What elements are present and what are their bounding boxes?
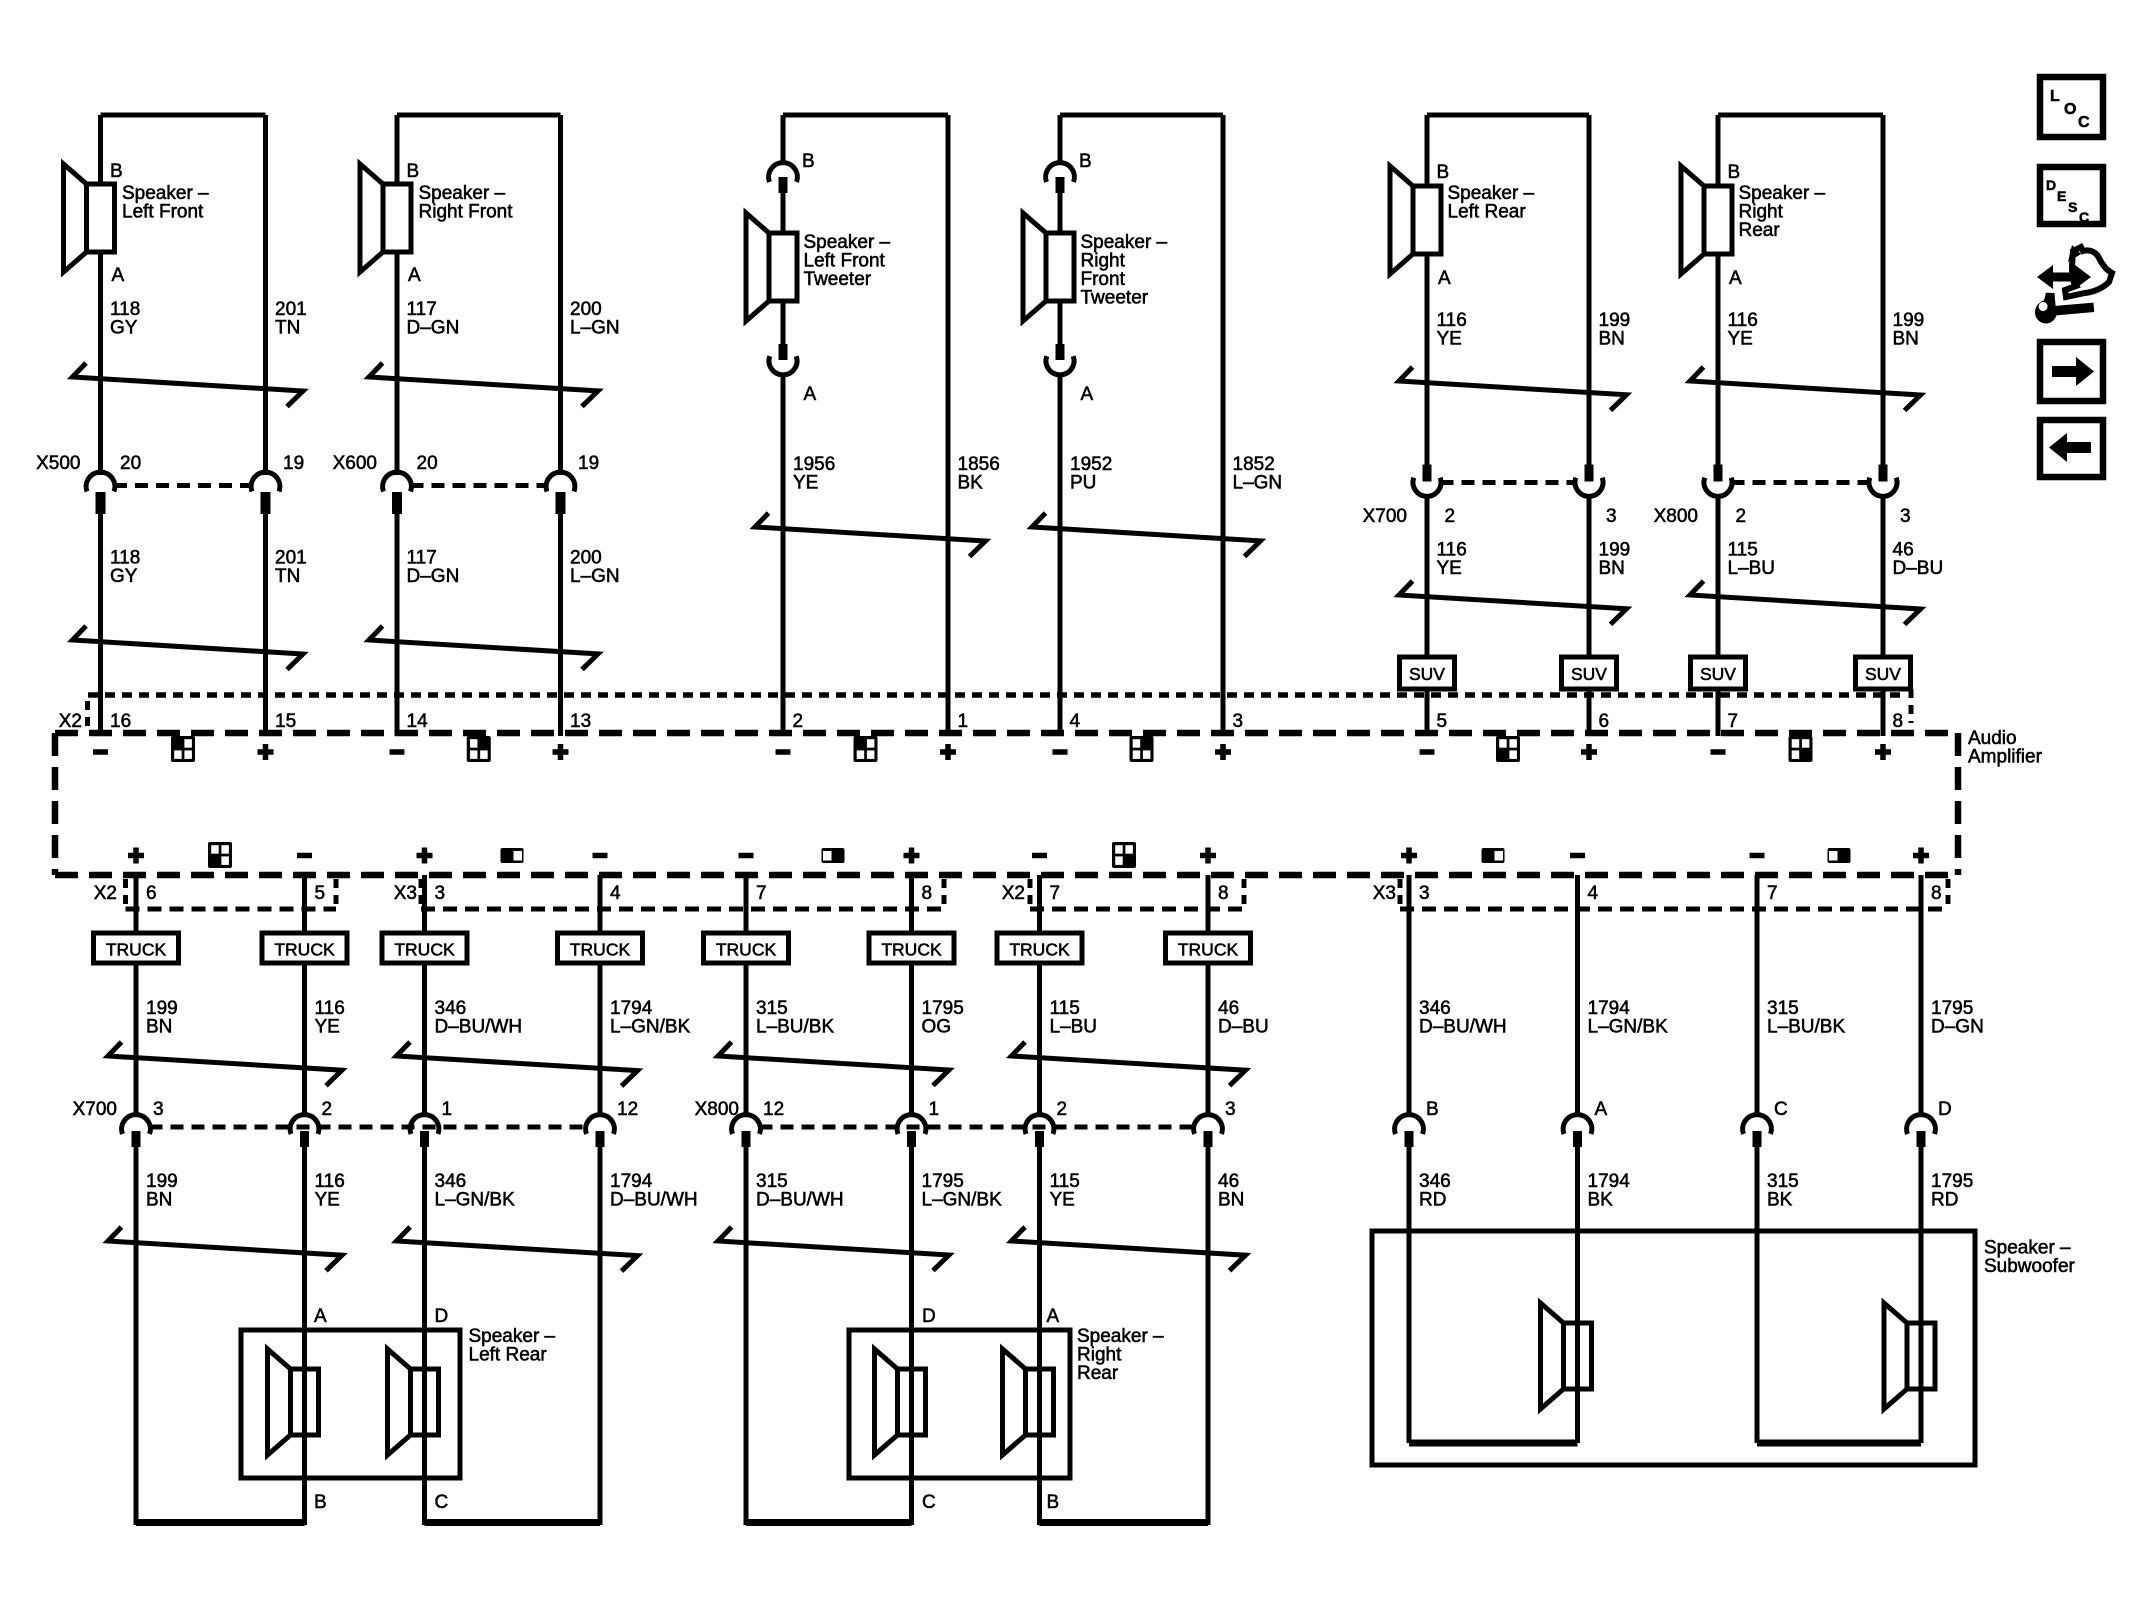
svg-text:D–BU: D–BU (1893, 558, 1944, 579)
svg-text:YE: YE (793, 473, 818, 494)
svg-text:2: 2 (1736, 506, 1747, 527)
svg-text:2: 2 (1445, 506, 1456, 527)
svg-text:3: 3 (1606, 506, 1617, 527)
svg-text:S: S (2068, 199, 2077, 215)
svg-text:D: D (435, 1306, 449, 1327)
svg-text:Rear: Rear (1077, 1363, 1119, 1384)
svg-text:A: A (1081, 384, 1094, 405)
svg-text:2: 2 (322, 1099, 333, 1120)
svg-text:A: A (804, 384, 817, 405)
svg-text:2: 2 (793, 711, 804, 732)
svg-text:1: 1 (442, 1099, 453, 1120)
svg-text:X2: X2 (94, 883, 117, 904)
svg-text:D–GN: D–GN (407, 318, 460, 339)
svg-text:15: 15 (275, 711, 296, 732)
svg-text:B: B (1079, 151, 1092, 172)
svg-text:4: 4 (1070, 711, 1081, 732)
svg-text:TN: TN (275, 318, 300, 339)
svg-text:B: B (1047, 1492, 1060, 1513)
svg-text:Subwoofer: Subwoofer (1984, 1256, 2076, 1277)
svg-text:D–BU/WH: D–BU/WH (1419, 1017, 1507, 1038)
svg-text:X700: X700 (73, 1099, 117, 1120)
svg-text:20: 20 (120, 453, 141, 474)
svg-text:13: 13 (570, 711, 591, 732)
svg-text:TN: TN (275, 566, 300, 587)
svg-text:YE: YE (1437, 329, 1462, 350)
svg-text:E: E (2057, 188, 2066, 204)
svg-text:7: 7 (1050, 883, 1061, 904)
svg-text:C: C (435, 1492, 449, 1513)
svg-text:L–GN/BK: L–GN/BK (610, 1017, 691, 1038)
svg-text:L–GN/BK: L–GN/BK (922, 1190, 1003, 1211)
svg-text:4: 4 (1588, 883, 1599, 904)
svg-text:1: 1 (958, 711, 969, 732)
svg-text:7: 7 (1767, 883, 1778, 904)
svg-text:L–BU: L–BU (1050, 1017, 1098, 1038)
svg-text:Left Rear: Left Rear (1448, 202, 1527, 223)
svg-text:X700: X700 (1363, 506, 1407, 527)
svg-text:L–GN/BK: L–GN/BK (1588, 1017, 1669, 1038)
svg-text:BN: BN (146, 1190, 172, 1211)
svg-text:RD: RD (1419, 1190, 1446, 1211)
svg-text:OG: OG (922, 1017, 952, 1038)
svg-text:8: 8 (922, 883, 933, 904)
svg-text:BN: BN (1599, 558, 1625, 579)
svg-text:L–GN/BK: L–GN/BK (435, 1190, 516, 1211)
svg-text:A: A (408, 265, 421, 286)
svg-text:BN: BN (1599, 329, 1625, 350)
svg-text:Left Front: Left Front (122, 202, 204, 223)
svg-text:2: 2 (1057, 1099, 1068, 1120)
svg-text:Tweeter: Tweeter (1081, 288, 1149, 309)
svg-text:X500: X500 (36, 453, 80, 474)
svg-text:C: C (1774, 1099, 1788, 1120)
svg-text:SUV: SUV (1700, 664, 1736, 684)
svg-text:SUV: SUV (1571, 664, 1607, 684)
svg-text:D–BU/WH: D–BU/WH (435, 1017, 523, 1038)
svg-text:BN: BN (146, 1017, 172, 1038)
svg-text:BK: BK (958, 473, 984, 494)
svg-text:D–BU: D–BU (1218, 1017, 1269, 1038)
svg-text:14: 14 (407, 711, 429, 732)
svg-text:TRUCK: TRUCK (106, 940, 167, 960)
svg-text:X800: X800 (695, 1099, 739, 1120)
svg-text:L–GN: L–GN (1233, 473, 1283, 494)
svg-text:D–GN: D–GN (407, 566, 460, 587)
svg-text:SUV: SUV (1409, 664, 1445, 684)
svg-text:PU: PU (1070, 473, 1096, 494)
svg-text:RD: RD (1931, 1190, 1958, 1211)
svg-text:8: 8 (1218, 883, 1229, 904)
svg-text:8: 8 (1893, 711, 1904, 732)
svg-text:12: 12 (763, 1099, 784, 1120)
svg-text:3: 3 (1419, 883, 1430, 904)
svg-text:5: 5 (315, 883, 326, 904)
svg-text:YE: YE (1437, 558, 1462, 579)
svg-text:TRUCK: TRUCK (881, 940, 942, 960)
svg-text:L–GN: L–GN (570, 566, 620, 587)
svg-text:3: 3 (1900, 506, 1911, 527)
svg-text:8: 8 (1931, 883, 1942, 904)
svg-text:L: L (2050, 88, 2060, 105)
svg-text:6: 6 (146, 883, 157, 904)
svg-text:B: B (1728, 162, 1741, 183)
svg-text:TRUCK: TRUCK (1009, 940, 1070, 960)
svg-text:B: B (314, 1492, 327, 1513)
svg-text:A: A (1047, 1306, 1060, 1327)
svg-text:20: 20 (417, 453, 438, 474)
svg-text:X2: X2 (1002, 883, 1025, 904)
svg-text:6: 6 (1599, 711, 1610, 732)
svg-text:Tweeter: Tweeter (804, 269, 872, 290)
svg-text:Right Front: Right Front (419, 202, 514, 223)
svg-text:7: 7 (756, 883, 767, 904)
svg-text:3: 3 (1225, 1099, 1236, 1120)
svg-text:X3: X3 (394, 883, 417, 904)
svg-text:A: A (314, 1306, 327, 1327)
svg-text:5: 5 (1437, 711, 1448, 732)
svg-text:D–GN: D–GN (1931, 1017, 1984, 1038)
svg-text:D: D (922, 1306, 936, 1327)
svg-text:YE: YE (315, 1017, 340, 1038)
svg-text:B: B (802, 151, 815, 172)
svg-text:Rear: Rear (1739, 220, 1781, 241)
svg-text:TRUCK: TRUCK (394, 940, 455, 960)
svg-text:D: D (2046, 177, 2056, 193)
svg-text:12: 12 (617, 1099, 638, 1120)
svg-text:BN: BN (1893, 329, 1919, 350)
svg-text:YE: YE (315, 1190, 340, 1211)
svg-text:C: C (2078, 114, 2090, 131)
svg-text:X600: X600 (333, 453, 377, 474)
svg-text:16: 16 (110, 711, 131, 732)
svg-text:3: 3 (435, 883, 446, 904)
svg-text:A: A (112, 265, 125, 286)
svg-text:19: 19 (283, 453, 304, 474)
svg-text:B: B (407, 161, 420, 182)
svg-text:C: C (2079, 209, 2089, 225)
svg-text:3: 3 (153, 1099, 164, 1120)
svg-text:A: A (1595, 1099, 1608, 1120)
svg-text:A: A (1729, 268, 1742, 289)
svg-text:19: 19 (578, 453, 599, 474)
svg-text:TRUCK: TRUCK (570, 940, 631, 960)
svg-text:B: B (1437, 162, 1450, 183)
svg-text:X2: X2 (59, 711, 82, 732)
svg-text:SUV: SUV (1865, 664, 1901, 684)
svg-text:X3: X3 (1373, 883, 1396, 904)
svg-text:B: B (110, 161, 123, 182)
svg-text:X800: X800 (1654, 506, 1698, 527)
svg-text:YE: YE (1050, 1190, 1075, 1211)
svg-text:4: 4 (610, 883, 621, 904)
svg-text:1: 1 (929, 1099, 940, 1120)
svg-text:Amplifier: Amplifier (1968, 747, 2043, 768)
svg-text:D–BU/WH: D–BU/WH (610, 1190, 698, 1211)
svg-text:L–BU: L–BU (1728, 558, 1776, 579)
svg-text:TRUCK: TRUCK (716, 940, 777, 960)
svg-text:7: 7 (1728, 711, 1739, 732)
svg-text:L–GN: L–GN (570, 318, 620, 339)
svg-text:A: A (1438, 268, 1451, 289)
svg-text:YE: YE (1728, 329, 1753, 350)
svg-text:TRUCK: TRUCK (1178, 940, 1239, 960)
svg-text:O: O (2064, 101, 2076, 118)
svg-text:BK: BK (1767, 1190, 1793, 1211)
svg-text:GY: GY (110, 566, 138, 587)
svg-text:L–BU/BK: L–BU/BK (1767, 1017, 1845, 1038)
svg-text:BK: BK (1588, 1190, 1614, 1211)
svg-text:GY: GY (110, 318, 138, 339)
svg-text:D–BU/WH: D–BU/WH (756, 1190, 844, 1211)
svg-text:L–BU/BK: L–BU/BK (756, 1017, 834, 1038)
svg-text:BN: BN (1218, 1190, 1244, 1211)
svg-text:D: D (1938, 1099, 1952, 1120)
svg-text:C: C (922, 1492, 936, 1513)
svg-text:Left Rear: Left Rear (469, 1345, 548, 1366)
svg-text:TRUCK: TRUCK (274, 940, 335, 960)
svg-text:3: 3 (1233, 711, 1244, 732)
svg-text:B: B (1426, 1099, 1439, 1120)
